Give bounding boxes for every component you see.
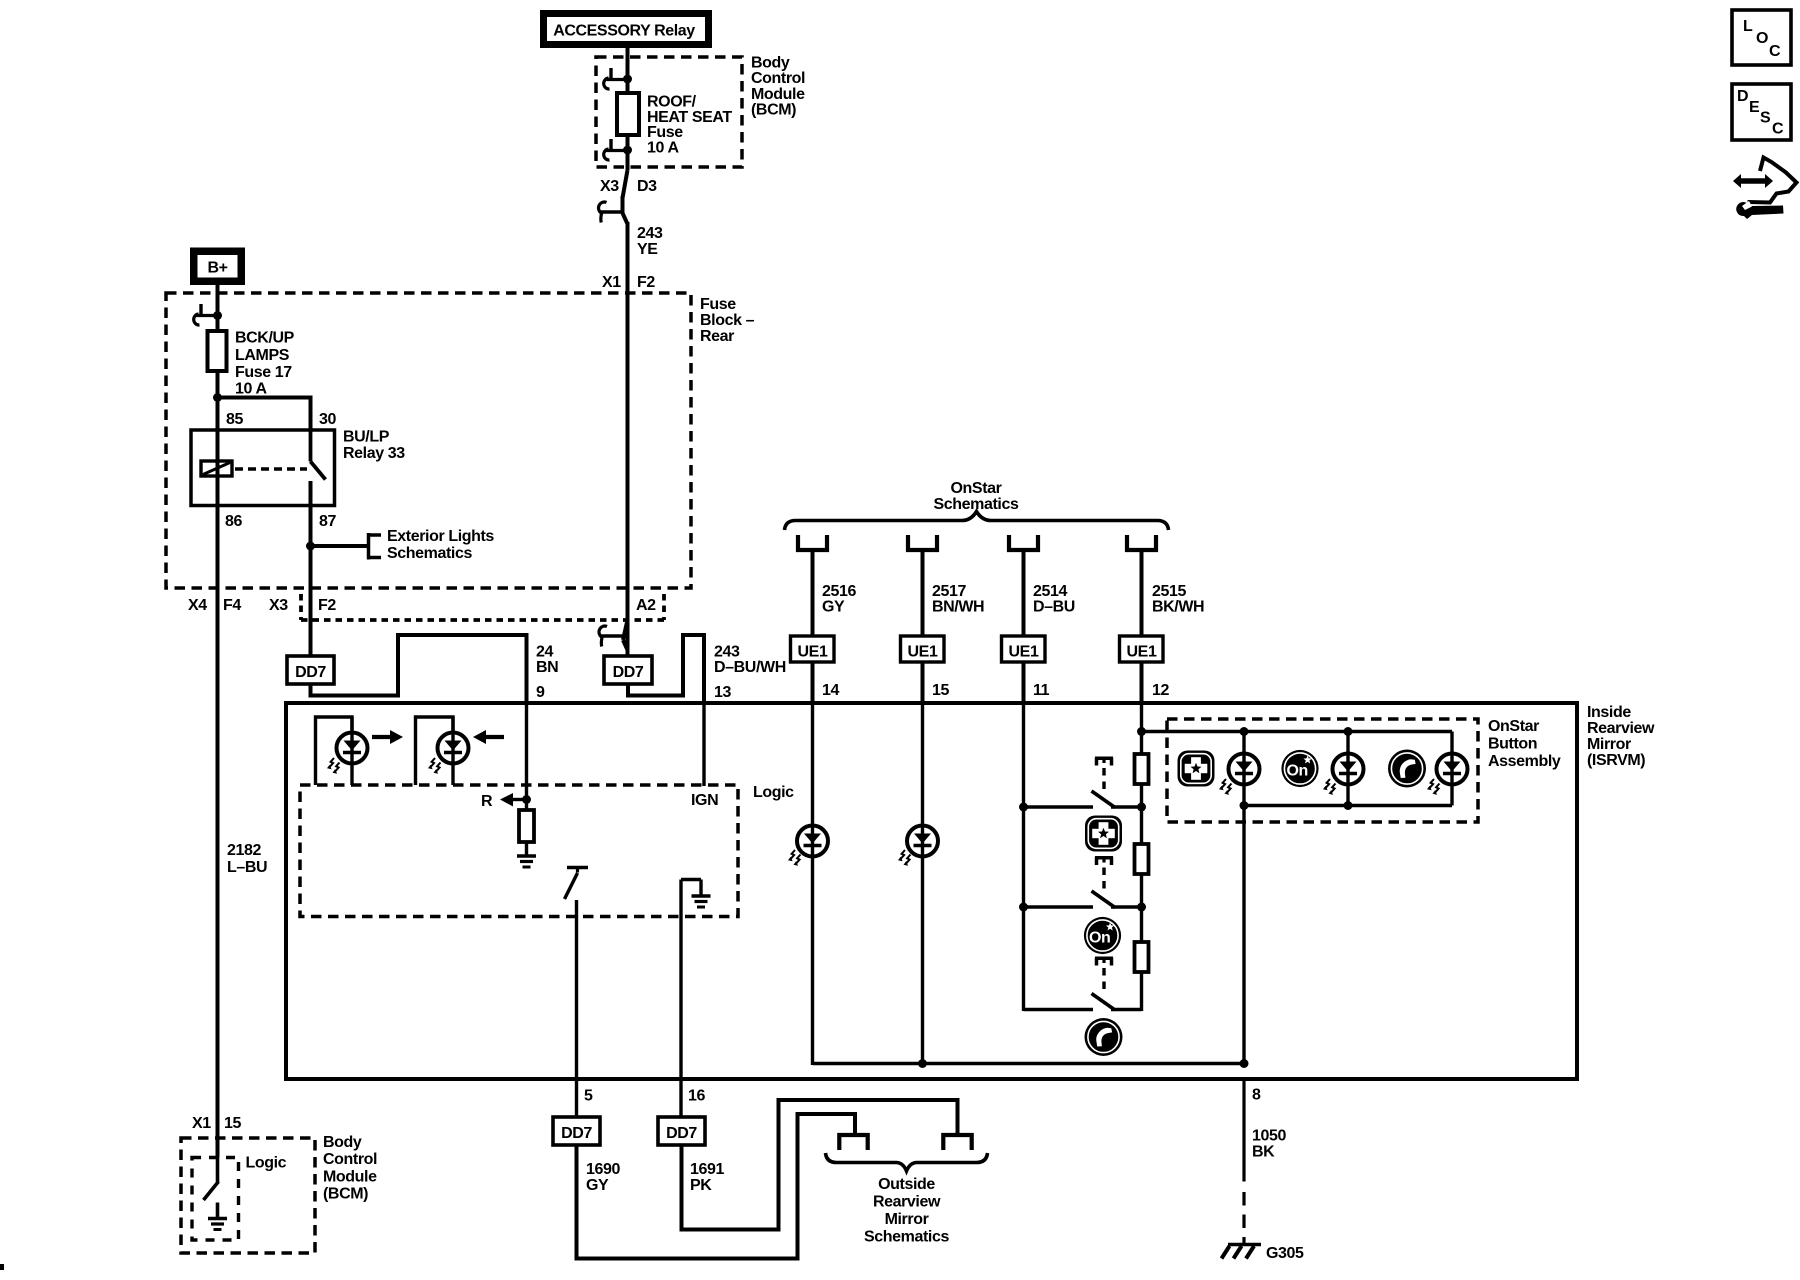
relay switch contact 30	[309, 430, 313, 462]
wire net 24 BN from DD7 to pin 9	[311, 635, 527, 705]
svg-text:2517: 2517	[932, 583, 966, 600]
svg-text:S: S	[1760, 110, 1771, 127]
svg-text:Block –: Block –	[700, 312, 755, 329]
wire pin 9 into logic	[525, 703, 528, 810]
LED light rays (assembly 2)	[1323, 779, 1336, 795]
relay switch blade	[311, 462, 326, 480]
svg-text:Rearview: Rearview	[873, 1194, 941, 1211]
ground G305 chassis symbol	[1222, 1245, 1262, 1259]
connector to outside mirror (1691)	[943, 1135, 971, 1150]
button emergency (assembly)	[1178, 751, 1215, 787]
svg-text:Logic: Logic	[753, 784, 794, 801]
wire UE1 to pin 11	[1022, 662, 1026, 705]
svg-text:A2: A2	[636, 597, 656, 614]
button OnStar (ladder)	[1084, 917, 1121, 954]
svg-text:Schematics: Schematics	[387, 545, 472, 562]
label Fuse Block - Rear	[700, 296, 755, 345]
svg-text:IGN: IGN	[691, 792, 718, 809]
button OnStar (assembly)	[1281, 750, 1318, 787]
wire label 1050 BK	[1252, 1128, 1286, 1161]
label Body Control Module (BCM)	[751, 55, 805, 119]
svg-text:Exterior Lights: Exterior Lights	[387, 528, 494, 545]
svg-text:Module: Module	[323, 1168, 377, 1185]
svg-text:15: 15	[224, 1115, 241, 1132]
LED light rays (left LED)	[327, 758, 340, 774]
connector DD7 (1691 PK)	[658, 1117, 705, 1145]
svg-text:13: 13	[714, 684, 731, 701]
icon wiring navigation (arrows and wrench)	[1733, 158, 1797, 220]
svg-text:O: O	[1756, 30, 1768, 47]
svg-text:BN/WH: BN/WH	[932, 599, 984, 616]
onstar button assembly dashed box	[1167, 719, 1478, 822]
switch emergency (sw1)	[1024, 791, 1142, 808]
logic dashed box (ISRVM)	[300, 785, 738, 917]
wire pin 16 to logic ground	[681, 880, 701, 1118]
LED light rays (2517)	[898, 850, 911, 866]
svg-text:C: C	[1772, 121, 1784, 138]
wire label 24 BN	[536, 643, 558, 676]
svg-text:Control: Control	[751, 70, 805, 87]
svg-text:G305: G305	[1266, 1245, 1304, 1262]
svg-text:OnStar: OnStar	[1488, 718, 1539, 735]
assembly LED 3	[1437, 754, 1468, 806]
junction dot assembly LED2 top	[1344, 727, 1353, 736]
wire UE1 to pin 15	[921, 662, 925, 705]
svg-text:15: 15	[932, 682, 949, 699]
junction dot assembly bus 1	[1240, 801, 1249, 810]
connector DD7 (F2 wire)	[287, 656, 334, 684]
label BCK/UP LAMPS Fuse 17 10 A	[235, 330, 295, 398]
svg-text:Fuse 17: Fuse 17	[235, 364, 292, 381]
outside rearview mirror brace	[826, 1153, 988, 1171]
svg-text:BN: BN	[536, 659, 558, 676]
connector UE1 (2514)	[1002, 636, 1046, 662]
button linkage dashed 3	[1102, 968, 1105, 991]
wire switch to pin 5	[575, 900, 578, 1117]
svg-text:243: 243	[714, 643, 740, 660]
svg-text:YE: YE	[637, 241, 658, 258]
logic dashed box (BCM)	[192, 1158, 239, 1241]
wire label 2516 GY	[822, 583, 856, 616]
assembly LED 2	[1333, 732, 1364, 806]
connector UE1 (2517)	[901, 636, 945, 662]
arrow to R	[500, 793, 527, 807]
label Outside Rearview Mirror Schematics	[864, 1176, 949, 1246]
wire assembly top feed	[1142, 732, 1453, 755]
relay BU/LP Relay 33 box	[191, 430, 335, 506]
connector terminal hook below B+	[194, 304, 218, 325]
svg-text:X1: X1	[602, 274, 621, 291]
pin label X3 / F2 (lower row)	[269, 597, 336, 614]
wire net 2515 BK/WH	[1140, 552, 1144, 637]
svg-text:UE1: UE1	[1009, 644, 1039, 661]
connector to onstar schematics (2515)	[1127, 535, 1156, 550]
svg-text:Rear: Rear	[700, 328, 734, 345]
svg-text:14: 14	[822, 682, 839, 699]
svg-text:9: 9	[536, 684, 545, 701]
svg-text:D: D	[1737, 88, 1748, 105]
junction dot BCM fuse top	[623, 75, 632, 84]
svg-text:Outside: Outside	[878, 1176, 935, 1193]
svg-text:F2: F2	[637, 274, 655, 291]
ground (BCM logic)	[208, 1203, 227, 1230]
button linkage bracket 1	[1095, 758, 1113, 766]
svg-text:DD7: DD7	[561, 1125, 592, 1142]
photo LED (2517 circuit)	[907, 826, 938, 857]
svg-text:Mirror: Mirror	[1587, 736, 1631, 753]
svg-text:L–BU: L–BU	[227, 859, 267, 876]
junction dot below B+	[213, 311, 222, 320]
switch phone (sw3)	[1024, 994, 1142, 1011]
connector to onstar schematics (2514)	[1009, 535, 1038, 550]
wire net 243 D-BU/WH from DD7 to pin 13	[628, 635, 704, 705]
svg-text:BU/LP: BU/LP	[343, 429, 390, 446]
resistor (logic R)	[519, 810, 534, 855]
svg-text:2182: 2182	[227, 842, 261, 859]
wire net 87 to DD7 (F2)	[309, 481, 313, 656]
wire net 2517 BN/WH	[921, 552, 925, 637]
junction dot right rail sw1	[1137, 803, 1146, 812]
connector to outside mirror (1690)	[839, 1135, 867, 1150]
wire label 243 YE	[637, 225, 663, 258]
svg-text:85: 85	[226, 411, 243, 428]
svg-text:L: L	[1743, 18, 1753, 35]
svg-text:BK/WH: BK/WH	[1152, 599, 1204, 616]
svg-text:2516: 2516	[822, 583, 856, 600]
junction dot assembly LED1 top	[1240, 727, 1249, 736]
button phone (assembly)	[1388, 750, 1426, 788]
page corner mark	[0, 1264, 4, 1270]
svg-text:UE1: UE1	[1127, 644, 1157, 661]
wire label 2517 BN/WH	[932, 583, 984, 616]
label OnStar Schematics	[934, 480, 1019, 513]
junction dot fuse17 to relay 85 branch	[213, 393, 222, 402]
junction dot left rail sw1	[1019, 803, 1028, 812]
label Inside Rearview Mirror (ISRVM)	[1587, 704, 1655, 769]
svg-text:UE1: UE1	[908, 644, 938, 661]
junction dot bus at pin8 wire	[1240, 1059, 1249, 1068]
wire pin 14 down to bus	[811, 703, 814, 1065]
svg-text:X3: X3	[600, 178, 619, 195]
wire net 243 YE from accessory relay (X3-D3 to X1-F2)	[623, 48, 628, 656]
junction dot assembly bus 2	[1344, 801, 1353, 810]
svg-text:GY: GY	[822, 599, 845, 616]
svg-text:F2: F2	[318, 597, 336, 614]
ground bus wire inside ISRVM	[813, 1062, 1245, 1065]
wire net 2516 GY	[811, 552, 815, 637]
connector to onstar schematics (2517)	[908, 535, 937, 550]
assembly LED 1	[1229, 732, 1260, 806]
wire pin 15 down to bus	[921, 703, 924, 1065]
switch OnStar (sw2)	[1024, 891, 1142, 908]
svg-text:(BCM): (BCM)	[751, 102, 796, 119]
power node B+	[190, 248, 245, 286]
arrow right (mirror dim)	[372, 730, 403, 744]
junction dot right rail top	[1137, 727, 1146, 736]
svg-text:Assembly: Assembly	[1488, 753, 1561, 770]
wire assembly to ground bus (1050 BK)	[1242, 806, 1245, 1064]
svg-text:1050: 1050	[1252, 1128, 1286, 1145]
svg-text:D3: D3	[637, 178, 657, 195]
svg-text:ACCESSORY Relay: ACCESSORY Relay	[553, 23, 695, 40]
LED light rays (right LED)	[428, 758, 441, 774]
wire label 243 D-BU/WH	[714, 643, 786, 676]
mirror fold switch (logic)	[565, 868, 589, 900]
connector terminal hook at BCM fuse bottom	[604, 139, 628, 160]
svg-text:2515: 2515	[1152, 583, 1186, 600]
wire label 2182 L-BU	[227, 842, 267, 876]
wire net below fuse 17 to BCM (2182 L-BU)	[216, 371, 220, 1157]
assembly bottom bus	[1244, 804, 1452, 807]
junction dot BCM fuse bottom	[623, 146, 632, 155]
junction dot right rail sw2	[1137, 903, 1146, 912]
wire pin 13 IGN into logic	[702, 703, 705, 786]
in-line connector hook below X3-D3	[599, 202, 623, 222]
wire UE1 to pin 14	[811, 662, 815, 705]
wire branch to relay pin 30	[218, 398, 311, 433]
inside rearview mirror (ISRVM) box	[286, 703, 1577, 1079]
svg-text:16: 16	[688, 1088, 705, 1105]
svg-text:10 A: 10 A	[235, 381, 267, 398]
LED light rays (2516)	[788, 850, 801, 866]
wire from B+ to BCK/UP fuse	[216, 285, 220, 331]
wire net 2514 D-BU	[1022, 552, 1026, 637]
svg-text:Button: Button	[1488, 736, 1537, 753]
connector DD7 (243 D-BU/WH wire)	[604, 656, 652, 684]
label ROOF/HEAT SEAT Fuse 10 A	[647, 94, 732, 157]
wire net 1691 PK to outside mirror	[682, 1100, 958, 1230]
svg-text:BCK/UP: BCK/UP	[235, 330, 295, 347]
svg-text:1690: 1690	[586, 1161, 620, 1178]
wire label 2514 D-BU	[1033, 583, 1075, 616]
photo LED (2516 circuit)	[797, 826, 828, 857]
svg-text:X1: X1	[192, 1115, 211, 1132]
indicator LED right (mirror)	[416, 717, 469, 785]
svg-text:Body: Body	[323, 1134, 362, 1151]
button phone (ladder)	[1085, 1018, 1123, 1056]
connector UE1 (2515)	[1120, 636, 1164, 662]
svg-text:B+: B+	[207, 260, 227, 277]
svg-text:(ISRVM): (ISRVM)	[1587, 752, 1645, 769]
svg-text:DD7: DD7	[613, 664, 644, 681]
wire branch to exterior lights	[311, 544, 369, 548]
body control module (BCM) dashed box top	[596, 57, 742, 167]
pin label X1 / 15	[192, 1115, 241, 1132]
node R junction dot	[522, 795, 531, 804]
button emergency (ladder)	[1085, 816, 1122, 852]
svg-text:Mirror: Mirror	[885, 1211, 929, 1228]
wire UE1 to pin 12	[1140, 662, 1144, 705]
button linkage bracket 3	[1095, 958, 1113, 966]
label OnStar Button Assembly	[1488, 718, 1561, 770]
label Exterior Lights Schematics	[387, 528, 494, 562]
svg-text:(BCM): (BCM)	[323, 1186, 368, 1203]
exterior lights connector bracket	[369, 533, 382, 560]
svg-text:Relay 33: Relay 33	[343, 445, 405, 462]
svg-text:PK: PK	[690, 1177, 712, 1194]
svg-text:R: R	[481, 793, 493, 810]
svg-text:1691: 1691	[690, 1161, 724, 1178]
label BU/LP Relay 33	[343, 429, 405, 463]
svg-text:12: 12	[1152, 682, 1169, 699]
LED light rays (assembly 3)	[1427, 779, 1440, 795]
onstar schematics brace	[785, 512, 1169, 531]
resistor ladder R3	[1135, 942, 1149, 972]
svg-text:E: E	[1749, 99, 1760, 116]
icon box LOC	[1732, 10, 1791, 65]
connector DD7 (1690 GY)	[553, 1117, 600, 1145]
label box ACCESSORY Relay	[540, 10, 712, 48]
wire pin 11 ladder left rail	[1022, 703, 1025, 1011]
svg-text:Logic: Logic	[246, 1155, 287, 1172]
svg-text:Inside: Inside	[1587, 704, 1631, 721]
relay coil	[201, 461, 232, 476]
icon box DESC	[1732, 84, 1791, 140]
fuse ROOF/HEAT SEAT 10A (BCM)	[617, 93, 639, 135]
svg-text:86: 86	[225, 513, 242, 530]
svg-text:87: 87	[319, 513, 336, 530]
wire pin 12 ladder right rail	[1140, 703, 1143, 1011]
fuse BCK/UP LAMPS Fuse 17 10A	[208, 331, 227, 371]
connector UE1 (2516)	[791, 636, 835, 662]
bcm lower connector row dotted edge	[301, 594, 664, 620]
pin label X3 / D3	[600, 178, 657, 195]
body control module (BCM) dashed box bottom	[181, 1138, 315, 1253]
svg-text:5: 5	[584, 1088, 593, 1105]
fuse block - rear dashed box	[166, 293, 691, 588]
pin label X1 / F2	[602, 274, 655, 291]
svg-text:Body: Body	[751, 55, 790, 72]
in-line connector hook at A2	[599, 620, 627, 650]
wire net 1690 GY to outside mirror	[577, 1114, 856, 1259]
svg-text:8: 8	[1252, 1087, 1261, 1104]
svg-text:24: 24	[536, 643, 553, 660]
svg-text:30: 30	[319, 411, 336, 428]
wire label 1691 PK	[690, 1161, 724, 1194]
svg-text:DD7: DD7	[666, 1125, 697, 1142]
button linkage dashed 2	[1102, 868, 1105, 890]
connector terminal hook at BCM fuse top	[604, 68, 628, 89]
wire label 2515 BK/WH	[1152, 583, 1204, 616]
ground (logic right)	[692, 896, 711, 907]
svg-text:Fuse: Fuse	[700, 296, 736, 313]
junction dot exterior lights branch	[306, 542, 315, 551]
relay coil-contact dashed link	[235, 467, 307, 471]
button linkage bracket 2	[1095, 857, 1113, 865]
arrow left (mirror dim)	[473, 730, 504, 744]
svg-text:DD7: DD7	[295, 664, 326, 681]
connector to onstar schematics (2516)	[798, 535, 827, 550]
indicator LED left (mirror)	[316, 717, 368, 785]
wire net 1050 BK	[1242, 1081, 1245, 1243]
button linkage dashed 1	[1102, 768, 1105, 789]
svg-text:GY: GY	[586, 1177, 609, 1194]
label Body Control Module (BCM) bottom	[323, 1134, 377, 1203]
svg-text:Control: Control	[323, 1151, 377, 1168]
junction dot left rail sw2	[1019, 903, 1028, 912]
svg-text:11: 11	[1033, 682, 1050, 699]
svg-text:LAMPS: LAMPS	[235, 347, 290, 364]
svg-text:243: 243	[637, 225, 663, 242]
svg-text:X4: X4	[188, 597, 207, 614]
svg-text:BK: BK	[1252, 1144, 1275, 1161]
svg-text:2514: 2514	[1033, 583, 1067, 600]
svg-text:OnStar: OnStar	[951, 480, 1002, 497]
svg-text:Module: Module	[751, 86, 805, 103]
svg-text:Schematics: Schematics	[864, 1229, 949, 1246]
svg-text:F4: F4	[223, 597, 241, 614]
svg-text:X3: X3	[269, 597, 288, 614]
pin label X4 / F4	[188, 597, 241, 614]
wire label 1690 GY	[586, 1161, 620, 1194]
BCM logic switch blade	[204, 1157, 219, 1200]
LED light rays (assembly 1)	[1219, 779, 1232, 795]
junction dot bus at pin15 wire	[918, 1059, 927, 1068]
svg-text:C: C	[1769, 43, 1781, 60]
resistor ladder R1	[1135, 754, 1149, 784]
svg-text:D–BU/WH: D–BU/WH	[714, 659, 786, 676]
svg-text:UE1: UE1	[798, 644, 828, 661]
svg-text:Rearview: Rearview	[1587, 720, 1655, 737]
svg-text:10 A: 10 A	[647, 139, 679, 156]
ground (logic internal)	[517, 856, 536, 867]
resistor ladder R2	[1135, 844, 1149, 874]
svg-text:D–BU: D–BU	[1033, 599, 1075, 616]
